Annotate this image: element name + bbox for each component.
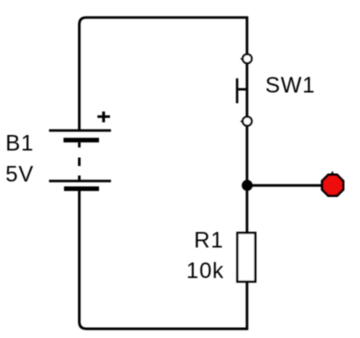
svg-text:10k: 10k xyxy=(186,258,224,283)
svg-text:R1: R1 xyxy=(194,228,224,253)
svg-text:B1: B1 xyxy=(6,131,35,156)
svg-text:5V: 5V xyxy=(6,161,35,186)
svg-text:SW1: SW1 xyxy=(265,72,315,97)
